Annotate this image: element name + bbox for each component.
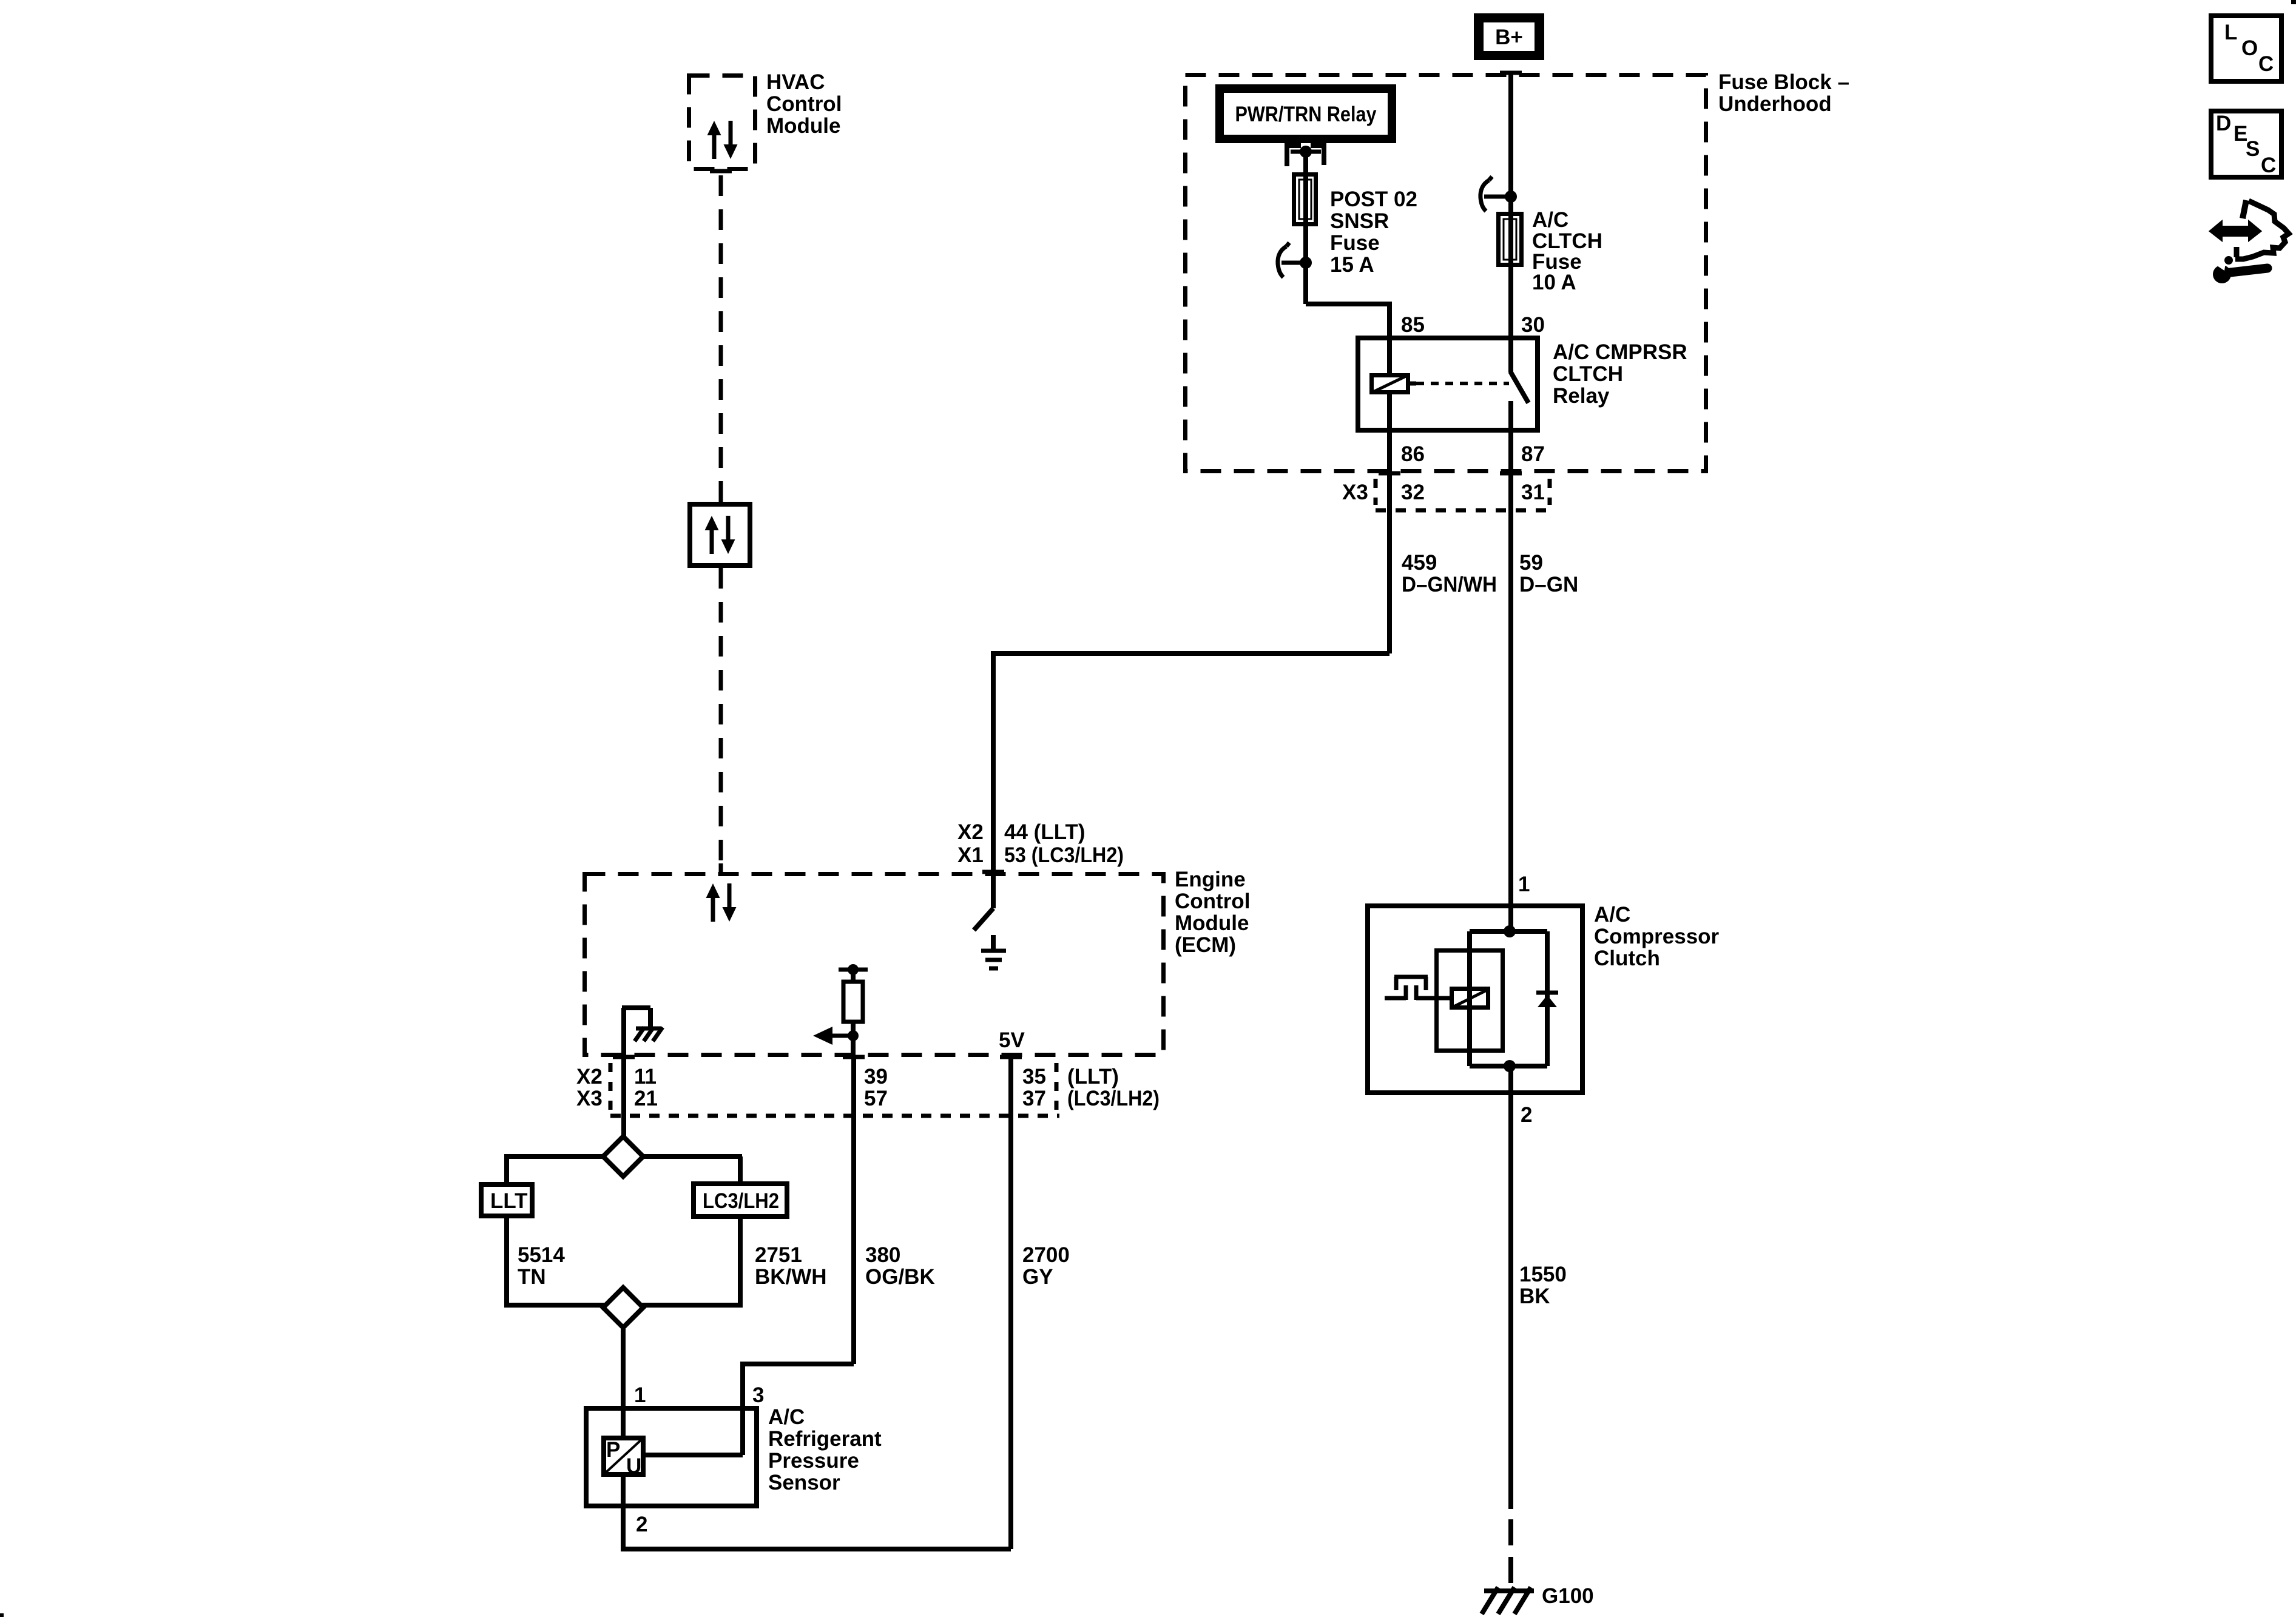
label: A/C Compressor Clutch bbox=[1594, 903, 1720, 970]
switch: ECM internal driver switch bbox=[974, 908, 993, 930]
label: 380 OG/BK bbox=[865, 1243, 935, 1289]
ground: G100 bbox=[1482, 1584, 1594, 1614]
svg-text:Sensor: Sensor bbox=[768, 1471, 840, 1494]
svg-text:1550: 1550 bbox=[1519, 1263, 1567, 1286]
pin label: compressor pin 2 bbox=[1521, 1103, 1532, 1127]
label: 5514 TN bbox=[518, 1243, 565, 1289]
svg-text:59: 59 bbox=[1519, 551, 1543, 575]
connector: X3 pass-through (dotted) bbox=[1376, 479, 1551, 510]
svg-text:(LC3/LH2): (LC3/LH2) bbox=[1067, 1087, 1160, 1110]
svg-text:D: D bbox=[2216, 112, 2231, 135]
svg-text:3: 3 bbox=[752, 1383, 764, 1407]
wire: ECM pin 11/21 low reference to splice diamond bbox=[621, 1057, 626, 1141]
label: A/C CLTCH Fuse 10 A bbox=[1532, 208, 1602, 294]
svg-text:Module: Module bbox=[1175, 911, 1249, 935]
svg-text:X3: X3 bbox=[1342, 481, 1368, 504]
label: 59 D-GN bbox=[1519, 551, 1578, 596]
svg-text:35: 35 bbox=[1022, 1065, 1046, 1089]
pin label: sensor pin 2 bbox=[636, 1513, 647, 1536]
label: 459 D-GN/WH bbox=[1402, 551, 1497, 596]
svg-text:87: 87 bbox=[1521, 442, 1545, 466]
wire: left branch to LLT bbox=[504, 1156, 509, 1182]
svg-text:PWR/TRN Relay: PWR/TRN Relay bbox=[1235, 103, 1377, 126]
pin label: compressor pin 1 bbox=[1518, 873, 1530, 896]
svg-text:10 A: 10 A bbox=[1532, 271, 1576, 294]
relay switch contact bbox=[1510, 336, 1528, 433]
svg-text:Engine: Engine bbox=[1175, 868, 1246, 891]
svg-text:A/C CMPRSR: A/C CMPRSR bbox=[1553, 340, 1687, 364]
relay coil bbox=[1372, 336, 1417, 433]
svg-text:85: 85 bbox=[1401, 313, 1425, 337]
wire: circuit 459 D-GN/WH relay pin 86 to ECM bbox=[993, 433, 1389, 769]
svg-text:39: 39 bbox=[864, 1065, 888, 1089]
svg-text:Fuse: Fuse bbox=[1330, 231, 1380, 255]
label: 1550 BK bbox=[1519, 1263, 1567, 1308]
wire: fuse to relay pin 30 bbox=[1508, 267, 1513, 336]
svg-text:Pressure: Pressure bbox=[768, 1449, 859, 1473]
pin label: X2 44 (LLT) / X1 53 (LC3/LH2) bbox=[957, 820, 1124, 867]
clutch internal parallel loop bbox=[1470, 906, 1547, 1093]
component: A/C Refrigerant Pressure Sensor box bbox=[586, 1406, 757, 1508]
svg-text:37: 37 bbox=[1022, 1087, 1046, 1110]
svg-text:Fuse Block –: Fuse Block – bbox=[1718, 70, 1849, 94]
splice: top diamond bbox=[504, 1136, 742, 1176]
svg-text:Underhood: Underhood bbox=[1718, 92, 1832, 116]
svg-text:21: 21 bbox=[634, 1087, 658, 1110]
label: Engine Control Module (ECM) bbox=[1175, 868, 1250, 957]
svg-text:X1: X1 bbox=[957, 843, 984, 867]
svg-text:2700: 2700 bbox=[1022, 1243, 1070, 1267]
terminal: fuse block plug-in bracket under PWR/TRN Relay bbox=[1287, 146, 1324, 166]
svg-text:2: 2 bbox=[1521, 1103, 1532, 1127]
label: 5V reference bbox=[999, 1028, 1025, 1052]
fuse: A/C CLTCH Fuse 10 A bbox=[1499, 212, 1522, 267]
svg-text:(LLT): (LLT) bbox=[1067, 1065, 1119, 1089]
svg-text:2: 2 bbox=[636, 1513, 647, 1536]
label: A/C Refrigerant Pressure Sensor bbox=[768, 1405, 882, 1494]
svg-text:O: O bbox=[2241, 36, 2258, 60]
terminal clip on A/C CLTCH fuse feed bbox=[1481, 177, 1517, 211]
svg-text:TN: TN bbox=[518, 1265, 546, 1289]
svg-text:B+: B+ bbox=[1495, 25, 1523, 49]
wire: circuit 59 D-GN relay pin 87 to compressor clutch bbox=[1508, 433, 1513, 906]
clutch coil frame rectangle bbox=[1437, 951, 1503, 1051]
svg-text:D–GN: D–GN bbox=[1519, 573, 1578, 596]
svg-text:30: 30 bbox=[1521, 313, 1545, 337]
svg-text:380: 380 bbox=[865, 1243, 900, 1267]
transducer: P/U symbol bbox=[604, 1438, 643, 1478]
svg-text:A/C: A/C bbox=[768, 1405, 805, 1429]
component: A/C Compressor Clutch box bbox=[1368, 906, 1582, 1093]
wire: splice to sensor pin 1 bbox=[621, 1328, 626, 1406]
svg-text:HVAC: HVAC bbox=[766, 70, 825, 94]
module: HVAC Control Module dashed box bbox=[689, 76, 755, 169]
svg-text:86: 86 bbox=[1401, 442, 1425, 466]
svg-text:Clutch: Clutch bbox=[1594, 947, 1660, 970]
svg-text:(ECM): (ECM) bbox=[1175, 933, 1236, 957]
module: Engine Control Module (ECM) dashed box bbox=[585, 874, 1164, 1055]
svg-text:BK/WH: BK/WH bbox=[755, 1265, 827, 1289]
svg-text:Refrigerant: Refrigerant bbox=[768, 1427, 882, 1451]
wire: dashed data line HVAC module to data link box bbox=[710, 171, 732, 502]
pin label: sensor pin 3 bbox=[752, 1383, 764, 1407]
wire: right branch to LC3/LH2 bbox=[738, 1156, 743, 1181]
icon: LOC box bbox=[2211, 16, 2281, 81]
svg-text:1: 1 bbox=[634, 1383, 646, 1407]
svg-text:G100: G100 bbox=[1542, 1584, 1594, 1608]
svg-text:57: 57 bbox=[864, 1087, 888, 1110]
splice: bottom diamond bbox=[507, 1288, 743, 1328]
power feed: B+ terminal box bbox=[1474, 13, 1544, 60]
clutch plates symbol bbox=[1385, 977, 1450, 1000]
fuse: POST 02 SNSR Fuse 15 A bbox=[1294, 172, 1316, 226]
ground: ECM internal low-reference chassis ground bbox=[622, 1008, 663, 1057]
svg-text:15 A: 15 A bbox=[1330, 253, 1374, 277]
svg-text:BK: BK bbox=[1519, 1284, 1550, 1308]
connector band: ECM X2/X3 connector (dotted) bbox=[610, 1063, 1059, 1116]
svg-text:2751: 2751 bbox=[755, 1243, 802, 1267]
net label: LLT box bbox=[481, 1184, 532, 1216]
wiper arrow: ECM internal sense tap bbox=[813, 1027, 859, 1045]
svg-text:A/C: A/C bbox=[1532, 208, 1568, 232]
label: A/C CMPRSR CLTCH Relay bbox=[1553, 340, 1687, 408]
svg-text:POST 02: POST 02 bbox=[1330, 187, 1417, 211]
junction tees at ECM boundary bbox=[613, 1055, 1022, 1059]
net label: LC3/LH2 box bbox=[694, 1184, 787, 1217]
svg-text:5V: 5V bbox=[999, 1028, 1025, 1052]
svg-text:X2: X2 bbox=[576, 1065, 603, 1089]
diode: clutch suppression diode bbox=[1536, 993, 1558, 1007]
svg-text:5514: 5514 bbox=[518, 1243, 565, 1267]
svg-text:CLTCH: CLTCH bbox=[1553, 362, 1623, 386]
wire: circuit 1550 BK compressor to ground bbox=[1508, 1093, 1513, 1585]
svg-text:C: C bbox=[2258, 52, 2274, 76]
svg-text:X2: X2 bbox=[957, 820, 984, 844]
relay actuator dashed link bbox=[1416, 382, 1509, 385]
svg-text:P: P bbox=[606, 1438, 620, 1462]
icon: DESC box bbox=[2211, 111, 2281, 177]
speck: bottom-left page mark bbox=[0, 1613, 4, 1617]
svg-text:A/C: A/C bbox=[1594, 903, 1630, 927]
label: HVAC Control Module bbox=[766, 70, 842, 138]
svg-text:1: 1 bbox=[1518, 873, 1530, 896]
net label: PWR/TRN Relay feed box bbox=[1220, 89, 1392, 139]
svg-text:31: 31 bbox=[1521, 481, 1545, 504]
wire: ECM pin 44/53 control wire entering ECM bbox=[982, 769, 1004, 908]
resistor: ECM internal pull-up resistor bbox=[839, 964, 868, 1057]
svg-text:X3: X3 bbox=[576, 1087, 603, 1110]
wire: dashed data line box to ECM bbox=[719, 568, 723, 872]
svg-text:OG/BK: OG/BK bbox=[865, 1265, 935, 1289]
label: 2700 GY bbox=[1022, 1243, 1070, 1289]
icon: hand with arrow and wrench bbox=[2210, 200, 2289, 283]
pin labels: relay pins 85 30 86 87 bbox=[1401, 313, 1545, 466]
wire: circuit 380 OG/BK ECM pin 39/57 to sensor pin 3 bbox=[743, 1057, 854, 1406]
speck: top-right page mark bbox=[2291, 0, 2296, 4]
label: POST 02 SNSR Fuse 15 A bbox=[1330, 187, 1417, 277]
svg-text:GY: GY bbox=[1022, 1265, 1053, 1289]
svg-text:SNSR: SNSR bbox=[1330, 209, 1389, 233]
wire: B+ to A/C CLTCH fuse bbox=[1500, 73, 1522, 212]
wire: fuse to relay pin 85 with tap clip bbox=[1278, 226, 1389, 336]
svg-text:Relay: Relay bbox=[1553, 384, 1610, 408]
pin labels: X3 32 31 bbox=[1342, 481, 1545, 504]
module: Fuse Block - Underhood dashed box bbox=[1186, 75, 1706, 471]
ground: ECM internal signal ground bbox=[981, 935, 1006, 968]
svg-text:44 (LLT): 44 (LLT) bbox=[1004, 820, 1086, 844]
svg-text:11: 11 bbox=[634, 1065, 657, 1089]
pin labels: ECM connector X2/X3 pins 11/21, 39/57, 35/37 bbox=[576, 1065, 1160, 1110]
label: 2751 BK/WH bbox=[755, 1243, 827, 1289]
svg-text:32: 32 bbox=[1401, 481, 1425, 504]
svg-text:LLT: LLT bbox=[490, 1189, 528, 1213]
svg-text:459: 459 bbox=[1402, 551, 1437, 575]
wire: circuit 5514 TN bbox=[504, 1218, 509, 1308]
wire: circuit 2751 BK/WH bbox=[738, 1219, 743, 1308]
junction tees at fuse block bottom bbox=[1379, 471, 1522, 476]
label: Fuse Block - Underhood bbox=[1718, 70, 1849, 116]
pin label: sensor pin 1 bbox=[634, 1383, 646, 1407]
svg-text:LC3/LH2: LC3/LH2 bbox=[703, 1189, 779, 1213]
data link connector box (solid, up/down arrows) bbox=[690, 504, 750, 565]
wire: PWR/TRN relay feed to POST O2 SNSR fuse bbox=[1303, 152, 1308, 172]
svg-text:Module: Module bbox=[766, 114, 840, 138]
svg-text:Compressor: Compressor bbox=[1594, 925, 1720, 948]
svg-text:S: S bbox=[2246, 137, 2260, 161]
svg-text:U: U bbox=[626, 1454, 641, 1478]
relay: A/C CMPRSR CLTCH Relay box bbox=[1358, 338, 1538, 430]
svg-text:D–GN/WH: D–GN/WH bbox=[1402, 573, 1497, 596]
wire: circuit 2700 GY ECM pin 35/37 to sensor pin 2 bbox=[623, 1057, 1011, 1549]
svg-text:Control: Control bbox=[1175, 890, 1250, 913]
svg-text:C: C bbox=[2261, 154, 2276, 177]
clutch coil with diagonal bbox=[1452, 989, 1488, 1008]
svg-text:L: L bbox=[2224, 21, 2237, 44]
svg-text:Control: Control bbox=[766, 92, 842, 116]
svg-text:53 (LC3/LH2): 53 (LC3/LH2) bbox=[1004, 843, 1124, 867]
